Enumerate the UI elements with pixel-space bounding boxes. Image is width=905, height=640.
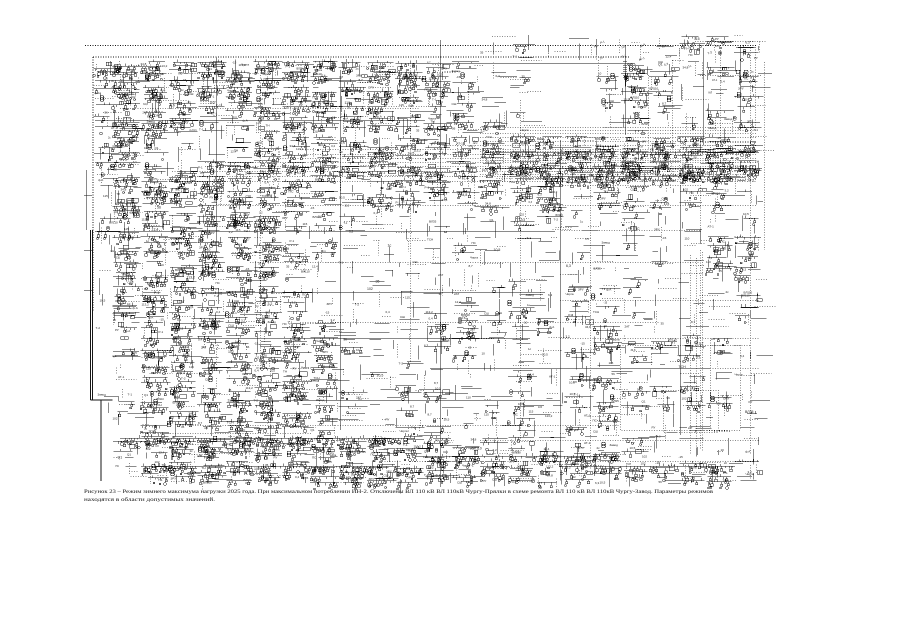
svg-text:ТСН: ТСН [378, 150, 384, 154]
feeder bay group [102, 289, 132, 309]
svg-text:10,5: 10,5 [542, 353, 548, 357]
svg-text:ВЛ35: ВЛ35 [185, 181, 193, 185]
wire [553, 214, 573, 230]
svg-text:113,2: 113,2 [426, 310, 434, 314]
svg-text:56: 56 [374, 65, 378, 69]
svg-text:Т-1: Т-1 [344, 222, 348, 225]
svg-text:КЛ: КЛ [340, 75, 344, 79]
wire [172, 122, 190, 124]
feeder bay group [535, 137, 574, 165]
wire [651, 61, 685, 93]
feeder bay group [169, 112, 198, 137]
wire [142, 350, 175, 357]
svg-text:8,7: 8,7 [427, 62, 431, 65]
feeder bay group [283, 212, 310, 240]
svg-text:2с: 2с [726, 290, 730, 294]
svg-text:115: 115 [258, 102, 263, 106]
bus long horizontals dotted [120, 108, 750, 440]
svg-text:КЛ: КЛ [709, 91, 713, 95]
svg-text:Т-1: Т-1 [754, 128, 759, 132]
svg-text:8,7: 8,7 [428, 413, 433, 417]
feeder bay group [719, 438, 729, 455]
svg-text:ф.А: ф.А [245, 448, 250, 452]
svg-text:Чирга: Чирга [316, 339, 324, 343]
svg-text:Q1: Q1 [155, 146, 159, 150]
feeder bay group [735, 141, 764, 159]
svg-text:СШ: СШ [400, 315, 405, 319]
feeder bay group [682, 84, 705, 100]
wire [436, 435, 454, 461]
svg-text:РУ: РУ [293, 367, 297, 371]
feeder bay group [399, 263, 420, 277]
feeder bay group [621, 66, 653, 87]
svg-text:3,2: 3,2 [294, 107, 298, 110]
svg-text:РУ: РУ [289, 438, 293, 442]
svg-text:110: 110 [439, 101, 444, 104]
wire [231, 92, 245, 108]
wire [605, 389, 630, 408]
feeder bay group [565, 135, 592, 162]
svg-text:10,5: 10,5 [178, 327, 184, 331]
svg-text:Р-1: Р-1 [246, 255, 251, 259]
svg-text:115: 115 [256, 121, 261, 125]
svg-text:Q1: Q1 [681, 389, 685, 393]
feeder bay group [680, 438, 704, 457]
svg-text:Завод: Завод [724, 117, 733, 121]
svg-text:10,5: 10,5 [377, 374, 384, 378]
wire [748, 314, 750, 325]
svg-text:102: 102 [682, 397, 687, 401]
svg-text:Завод: Завод [610, 443, 619, 447]
svg-text:56: 56 [452, 127, 456, 131]
svg-text:35: 35 [236, 73, 240, 77]
wire [120, 61, 148, 83]
feeder bay group [735, 235, 762, 264]
wire right dotted riser [749, 45, 751, 455]
svg-text:2с: 2с [470, 105, 474, 109]
svg-text:Р-1: Р-1 [131, 70, 136, 74]
wire [495, 185, 506, 197]
feeder bay group [650, 365, 665, 378]
svg-text:СШ: СШ [211, 243, 216, 247]
svg-text:ОРУ: ОРУ [257, 428, 263, 432]
svg-text:0,4: 0,4 [177, 318, 182, 322]
wire [334, 373, 336, 388]
svg-text:56: 56 [371, 165, 375, 169]
svg-text:102: 102 [227, 267, 232, 271]
svg-text:ф.А: ф.А [312, 478, 319, 482]
wire top dotted bus [85, 45, 757, 47]
svg-text:3,2: 3,2 [567, 466, 572, 470]
svg-text:3,2: 3,2 [493, 448, 498, 452]
svg-text:8,7: 8,7 [147, 115, 152, 119]
svg-text:102: 102 [642, 455, 647, 459]
feeder bay group [650, 386, 677, 414]
svg-text:ф.А: ф.А [319, 129, 324, 133]
feeder bay group [282, 311, 311, 338]
svg-text:115: 115 [609, 361, 614, 365]
svg-text:56: 56 [323, 389, 327, 393]
svg-text:2АТ: 2АТ [245, 172, 250, 176]
svg-text:Чирга: Чирга [462, 464, 470, 468]
svg-text:КЛ: КЛ [573, 380, 577, 384]
svg-text:12,4: 12,4 [179, 171, 186, 175]
feeder bay group [518, 238, 542, 258]
feeder bay group [384, 247, 394, 263]
svg-text:12,4: 12,4 [604, 405, 610, 409]
feeder bay group [622, 235, 645, 252]
feeder bay group [225, 312, 262, 335]
svg-text:РУ: РУ [662, 405, 666, 409]
svg-text:Т-1: Т-1 [339, 261, 344, 265]
wire [375, 66, 400, 79]
svg-text:2АТ: 2АТ [331, 252, 336, 256]
svg-text:-15: -15 [602, 104, 607, 108]
feeder bay group [452, 237, 491, 260]
svg-text:-15: -15 [683, 481, 688, 485]
feeder bay group [550, 369, 552, 384]
svg-text:ТН: ТН [202, 466, 206, 470]
svg-text:Q1: Q1 [381, 99, 385, 103]
wire [243, 322, 262, 326]
wire [623, 406, 661, 409]
wire [408, 264, 428, 279]
svg-text:ЗРУ: ЗРУ [327, 302, 333, 306]
svg-text:115: 115 [301, 154, 306, 158]
svg-text:10,5: 10,5 [624, 98, 630, 102]
svg-text:ЗРУ: ЗРУ [171, 477, 177, 481]
svg-text:РУ: РУ [540, 167, 544, 171]
svg-text:ТН: ТН [181, 226, 185, 230]
svg-text:0,4: 0,4 [739, 279, 744, 283]
svg-text:ф.А: ф.А [377, 115, 382, 119]
feeder bay group [255, 385, 294, 414]
svg-text:Q1: Q1 [246, 291, 250, 295]
svg-text:10: 10 [482, 352, 486, 356]
wire [575, 137, 608, 157]
svg-text:ТСН: ТСН [679, 365, 687, 369]
feeder bay group [198, 60, 227, 93]
feeder bay group [622, 342, 653, 364]
svg-text:Т-2: Т-2 [236, 172, 241, 176]
svg-text:10,5: 10,5 [210, 101, 216, 105]
relay zone border 2 [620, 345, 740, 430]
wire [116, 365, 137, 380]
svg-text:113,2: 113,2 [429, 77, 437, 81]
svg-text:115: 115 [601, 137, 606, 141]
svg-text:Р-1: Р-1 [154, 291, 160, 295]
feeder bay group [480, 459, 510, 487]
svg-text:ОРУ: ОРУ [600, 197, 606, 201]
svg-text:ТСН: ТСН [314, 376, 320, 380]
svg-text:12,4: 12,4 [152, 228, 159, 232]
svg-text:56: 56 [667, 396, 671, 400]
svg-text:ТН: ТН [498, 311, 502, 315]
wire [329, 200, 337, 202]
feeder bay group [737, 190, 763, 205]
wire [254, 185, 270, 205]
wire [632, 42, 651, 62]
svg-text:113,2: 113,2 [318, 143, 326, 147]
wire [317, 348, 332, 368]
svg-text:Q1: Q1 [256, 356, 260, 360]
feeder bay group [397, 85, 438, 104]
svg-text:10: 10 [322, 365, 326, 369]
svg-text:10: 10 [274, 117, 278, 121]
svg-text:2АТ: 2АТ [189, 412, 194, 416]
feeder bay group [481, 217, 504, 239]
svg-text:34,8: 34,8 [341, 167, 348, 171]
wire [151, 468, 168, 485]
svg-text:Q1: Q1 [297, 338, 301, 342]
feeder bay group [735, 459, 763, 480]
svg-text:1с: 1с [185, 439, 189, 443]
feeder bay group [733, 116, 761, 132]
wire [699, 296, 719, 307]
feeder bay group [417, 346, 419, 360]
svg-text:СШ: СШ [593, 430, 598, 434]
wire [284, 286, 307, 298]
svg-text:Q1: Q1 [175, 178, 179, 182]
svg-text:10,5: 10,5 [261, 106, 267, 110]
wire [234, 186, 249, 203]
svg-text:115: 115 [118, 136, 123, 140]
feeder bay group [198, 186, 225, 213]
svg-text:2с: 2с [597, 446, 601, 450]
feeder bay group [199, 359, 234, 382]
wire [635, 245, 637, 252]
feeder bay group [623, 268, 648, 287]
wire dotted frame top edge [93, 56, 630, 58]
feeder bay group [592, 442, 620, 468]
wire [540, 285, 542, 301]
svg-text:СШ: СШ [113, 144, 118, 148]
svg-text:РУ: РУ [454, 122, 458, 126]
svg-text:12,4: 12,4 [735, 165, 741, 169]
feeder bay group [680, 427, 712, 433]
svg-text:1с: 1с [339, 150, 343, 154]
wire [652, 264, 682, 279]
wire [114, 442, 128, 458]
wire [180, 424, 201, 426]
svg-text:2АТ: 2АТ [696, 354, 701, 358]
svg-text:113,2: 113,2 [246, 386, 254, 390]
bus section [620, 165, 755, 177]
svg-text:Чирга: Чирга [400, 429, 408, 433]
feeder bay group [198, 285, 227, 314]
svg-text:3,2: 3,2 [297, 171, 302, 175]
wire [542, 413, 570, 434]
svg-text:СШ: СШ [413, 260, 418, 264]
feeder bay group [141, 361, 171, 391]
svg-text:1с: 1с [293, 128, 297, 132]
feeder bay group [340, 319, 357, 332]
feeder bay group [311, 289, 313, 303]
svg-text:10: 10 [524, 321, 528, 325]
svg-text:ВЛ35: ВЛ35 [172, 337, 180, 341]
svg-text:2АТ: 2АТ [412, 172, 417, 176]
svg-text:0,4: 0,4 [171, 197, 176, 201]
svg-text:СШ: СШ [631, 188, 636, 192]
feeder bay group [119, 402, 135, 409]
feeder bay group [679, 164, 715, 184]
svg-text:АТ-1: АТ-1 [712, 79, 718, 82]
svg-text:2с: 2с [356, 67, 360, 71]
svg-text:6,3: 6,3 [540, 171, 545, 175]
svg-text:ф.А: ф.А [606, 288, 611, 292]
feeder bay group [126, 465, 137, 467]
wire [424, 90, 433, 108]
feeder bay group [548, 292, 551, 312]
feeder bay group [142, 211, 170, 230]
svg-text:ТСН: ТСН [142, 70, 148, 74]
svg-text:ЗРУ: ЗРУ [375, 439, 381, 443]
svg-text:Т-1: Т-1 [545, 471, 550, 475]
wire [259, 441, 287, 458]
feeder bay group [111, 160, 141, 188]
svg-text:ОРУ: ОРУ [441, 67, 447, 71]
feeder bay group [254, 436, 282, 463]
svg-text:3,2: 3,2 [521, 218, 526, 222]
wire [497, 322, 499, 335]
feeder bay group [253, 359, 292, 391]
wire [127, 213, 143, 237]
wire [714, 247, 721, 249]
svg-text:РУ: РУ [210, 196, 214, 200]
svg-text:10: 10 [350, 152, 354, 156]
svg-text:35: 35 [118, 253, 122, 257]
wire [751, 137, 775, 151]
feeder bay group [706, 416, 713, 418]
feeder bay group [94, 143, 125, 161]
wire [685, 241, 714, 246]
svg-text:2АТ: 2АТ [582, 177, 587, 181]
svg-text:ЗРУ: ЗРУ [209, 231, 215, 235]
wire [209, 169, 211, 174]
svg-text:СШ: СШ [484, 312, 489, 316]
svg-text:2с: 2с [347, 106, 351, 110]
wire [594, 262, 616, 273]
svg-text:8,7: 8,7 [227, 366, 232, 370]
feeder bay group [432, 263, 450, 287]
wire [711, 136, 725, 153]
wire [522, 278, 545, 280]
wire [513, 461, 545, 481]
svg-text:12,4: 12,4 [455, 300, 461, 304]
feeder bay group [310, 238, 338, 260]
svg-text:СШ: СШ [157, 245, 162, 249]
feeder bay group [254, 212, 290, 245]
svg-text:10,5: 10,5 [236, 229, 241, 232]
feeder bay group [424, 436, 462, 464]
feeder bay group [425, 248, 441, 250]
svg-text:110: 110 [345, 101, 351, 105]
svg-text:ТСН: ТСН [149, 430, 155, 434]
svg-text:0,4: 0,4 [429, 317, 434, 321]
wire [486, 36, 516, 52]
svg-text:2с: 2с [215, 261, 219, 265]
svg-text:ТСН: ТСН [227, 421, 235, 425]
wire [114, 315, 127, 334]
svg-text:АТ-1: АТ-1 [187, 442, 194, 446]
wire [353, 309, 355, 324]
wire [130, 352, 132, 357]
feeder bay group [113, 337, 141, 361]
feeder bay group [565, 395, 594, 413]
feeder bay group [283, 462, 310, 484]
feeder bay group [197, 389, 222, 413]
svg-text:ТСН: ТСН [379, 478, 384, 481]
wire [454, 313, 475, 338]
wire [116, 91, 142, 107]
svg-text:10: 10 [295, 72, 299, 76]
svg-text:115: 115 [322, 162, 327, 166]
feeder bay group [104, 397, 119, 414]
wire [497, 160, 513, 182]
feeder bay group [595, 39, 597, 56]
svg-text:ОРУ: ОРУ [119, 145, 125, 149]
wire [652, 340, 675, 365]
feeder bay group [254, 86, 286, 114]
svg-text:ТСН: ТСН [312, 96, 318, 100]
feeder bay group [254, 112, 291, 139]
svg-text:Р-1: Р-1 [458, 192, 463, 196]
wire [458, 120, 484, 134]
wire [188, 444, 209, 463]
feeder bay group [707, 237, 734, 266]
svg-text:1с: 1с [388, 244, 392, 248]
wire [669, 465, 677, 467]
svg-text:ТН: ТН [117, 193, 121, 196]
svg-text:102: 102 [429, 466, 434, 470]
feeder bay group [198, 212, 227, 239]
svg-text:Т-2: Т-2 [214, 294, 219, 298]
feeder bay group [734, 263, 761, 293]
wire [284, 416, 316, 428]
feeder bay group [507, 412, 550, 437]
svg-text:ВЛ35: ВЛ35 [642, 122, 650, 126]
svg-text:ф.А: ф.А [343, 117, 348, 121]
feeder bay group [113, 64, 151, 91]
wire [129, 463, 147, 476]
bus section [620, 149, 755, 160]
feeder bay group [340, 185, 367, 207]
wire [567, 416, 610, 431]
svg-text:АТ-1: АТ-1 [715, 45, 721, 48]
svg-text:2АТ: 2АТ [438, 273, 443, 277]
svg-text:1с: 1с [189, 481, 193, 485]
svg-text:1с: 1с [210, 365, 214, 369]
wire [317, 262, 347, 278]
feeder bay group [226, 287, 255, 314]
wire [432, 63, 462, 73]
wire [661, 227, 663, 242]
svg-text:1с: 1с [130, 77, 134, 81]
wire [113, 160, 140, 182]
svg-text:6,3: 6,3 [351, 478, 356, 482]
wire [198, 136, 200, 150]
feeder bay group [284, 260, 306, 282]
svg-text:-15: -15 [160, 318, 165, 322]
feeder bay group [367, 60, 402, 86]
svg-text:8,7: 8,7 [359, 78, 364, 82]
svg-text:ВЛ35: ВЛ35 [429, 220, 437, 224]
svg-text:ф.А: ф.А [314, 466, 319, 470]
svg-text:8,7: 8,7 [434, 381, 439, 385]
wire [334, 425, 336, 436]
wire [696, 63, 703, 79]
svg-text:113,2: 113,2 [628, 342, 636, 346]
